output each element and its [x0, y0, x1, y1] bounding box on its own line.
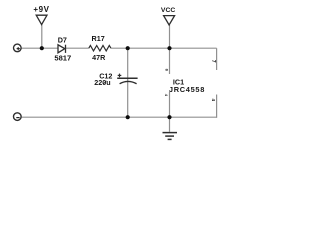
svg-text:5817: 5817	[54, 54, 71, 63]
svg-text:7: 7	[210, 60, 216, 63]
svg-text:R17: R17	[92, 34, 105, 43]
svg-text:JRC4558: JRC4558	[169, 85, 205, 94]
svg-text:VCC: VCC	[161, 7, 175, 14]
svg-text:D7: D7	[58, 35, 67, 44]
svg-text:47R: 47R	[92, 53, 106, 62]
svg-text:220u: 220u	[94, 78, 110, 87]
svg-text:+9V: +9V	[33, 5, 49, 14]
svg-text:4: 4	[211, 99, 216, 102]
